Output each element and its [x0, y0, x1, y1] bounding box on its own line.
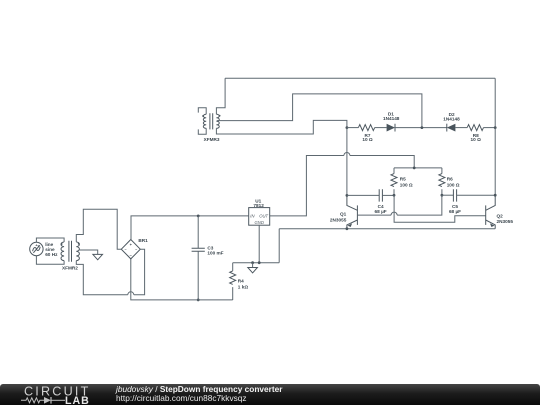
svg-text:R5: R5: [400, 177, 406, 182]
node junction bus feed: [413, 167, 416, 170]
label V1 line sine 60Hz: [45, 242, 58, 257]
node junction R7-left: [346, 126, 349, 129]
wire V1 top loop: [36, 238, 64, 242]
svg-text:~: ~: [125, 248, 127, 252]
voltage regulator U1 7812: [249, 208, 270, 226]
node junction C3 top: [197, 215, 200, 218]
diode D1: [387, 124, 395, 132]
node junction U1 gnd: [258, 261, 261, 264]
node junction right rail diode line: [494, 126, 497, 129]
svg-text:60 Hz: 60 Hz: [45, 252, 58, 257]
wire Q1 base line to R6 node: [397, 195, 442, 215]
node junction collector-C4: [346, 194, 349, 197]
capacitor C3: [192, 216, 205, 300]
svg-text:XFMR3: XFMR3: [204, 137, 220, 142]
wire XFMR3 secondary bottom to R7 node: [216, 120, 347, 134]
wire XFMR3 primary bottom stub: [198, 128, 206, 134]
node junction R6-C5: [441, 194, 444, 197]
wire AC lead to BR1 right vertex: [134, 249, 145, 295]
node junction Q1 emitter: [346, 227, 349, 230]
footer text: [116, 385, 282, 402]
svg-text:BR1: BR1: [138, 238, 148, 243]
capacitor C5: [453, 189, 456, 201]
svg-text:68 µF: 68 µF: [375, 209, 387, 214]
wire U1 OUT to multivibrator feed: [270, 156, 344, 216]
svg-text:+: +: [130, 242, 133, 247]
resistor R7: [358, 125, 374, 131]
wire right rail lower: [494, 128, 496, 196]
resistor R8: [467, 125, 483, 131]
svg-text:XFMR2: XFMR2: [62, 265, 78, 270]
wire top rail: [225, 77, 495, 79]
svg-text:R6: R6: [447, 177, 453, 182]
svg-text:LAB: LAB: [65, 395, 90, 405]
resistor R4: [230, 263, 236, 300]
transistor Q2: [486, 195, 496, 229]
wire C4 left lead: [347, 194, 379, 196]
wire R7 node drop to Q1 collector node: [346, 128, 348, 196]
ground symbol at XFMR2: [93, 254, 103, 259]
svg-text:GND: GND: [255, 220, 264, 225]
svg-text:2N3055: 2N3055: [330, 217, 347, 222]
svg-text:R4: R4: [238, 279, 244, 284]
transformer XFMR2: [61, 241, 80, 262]
svg-text:1 kΩ: 1 kΩ: [238, 284, 249, 289]
wire C5 right lead: [457, 194, 496, 196]
svg-text:Q2: Q2: [497, 213, 504, 218]
node junction C3 bottom: [197, 299, 200, 302]
wire R7 to D1: [375, 127, 387, 129]
wire XFMR3 secondary top riser: [216, 78, 225, 114]
wire U1 GND drop: [258, 225, 260, 263]
svg-text:100 Ω: 100 Ω: [400, 182, 413, 187]
voltage source V1 line sine 60 Hz: [30, 242, 43, 255]
svg-text:~: ~: [135, 248, 137, 252]
wire emitter bus: [279, 228, 495, 230]
resistor R5: [391, 168, 397, 195]
footer bar: [0, 384, 540, 405]
svg-text:10 Ω: 10 Ω: [362, 137, 373, 142]
node junction rail-C5: [494, 194, 497, 197]
capacitor C4: [379, 189, 382, 201]
wire hop over collector drop: [344, 153, 350, 156]
transistor Q1: [347, 195, 358, 228]
node junction ground symbol: [251, 261, 254, 264]
diode D2: [447, 124, 456, 132]
transformer XFMR3: [202, 113, 220, 129]
wire D1 to D2: [395, 127, 447, 129]
wire C4 right lead: [382, 194, 394, 196]
svg-text:68 µF: 68 µF: [449, 209, 461, 214]
wire BR1 left AC lead from XFMR2 top: [76, 209, 121, 249]
wire hop AC over DC minus: [128, 292, 134, 295]
node junction R5-C4: [393, 194, 396, 197]
wire V1 bottom loop: [36, 256, 64, 265]
svg-text:Q1: Q1: [340, 212, 347, 217]
wire R5R6 top bus: [394, 167, 442, 169]
wire Q1 base: [357, 214, 391, 216]
wire DC minus line: [131, 259, 233, 300]
wire XFMR3 center tap to upper net: [217, 94, 422, 128]
wire D2 to R8: [455, 127, 467, 129]
svg-text:1N4148: 1N4148: [443, 116, 460, 121]
ground symbol near U1: [248, 263, 258, 273]
svg-text:OUT: OUT: [259, 214, 268, 219]
wire ground line R4 to bus riser: [233, 262, 280, 264]
svg-text:2N3055: 2N3055: [497, 219, 514, 224]
svg-text:10 Ω: 10 Ω: [471, 137, 482, 142]
wire R8 to right rail: [484, 127, 496, 129]
wire XFMR2 center tap to ground: [79, 250, 98, 254]
wire emitter bus drop to ground line: [278, 229, 280, 263]
CircuitLab logo: [20, 384, 112, 405]
node junction mid diode line: [421, 126, 424, 129]
wire U1 IN line from bridge: [131, 216, 249, 240]
svg-text:1N4148: 1N4148: [383, 116, 400, 121]
wire right rail upper: [494, 78, 496, 127]
svg-text:7812: 7812: [253, 203, 264, 208]
svg-text:100 mF: 100 mF: [207, 250, 223, 255]
wire hop base over cross-couple: [391, 212, 397, 215]
svg-text:100 Ω: 100 Ω: [447, 182, 460, 187]
wire R7 lead left: [347, 127, 359, 129]
svg-text:+: +: [35, 243, 37, 247]
wire XFMR3 primary top stub: [198, 108, 206, 115]
resistor R6: [439, 168, 445, 195]
wire cross-couple R5C4 node to Q2 base: [394, 195, 486, 222]
wire XFMR2 bottom AC lead: [76, 261, 128, 295]
bridge rectifier BR1: [121, 240, 140, 259]
wire C5 left lead: [442, 194, 454, 196]
wire feed to R5R6 bus: [350, 156, 414, 168]
